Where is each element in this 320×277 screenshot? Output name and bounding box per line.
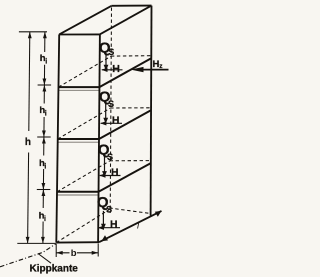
- svg-text:S: S: [106, 204, 112, 214]
- svg-text:i: i: [44, 216, 46, 223]
- svg-text:i: i: [45, 111, 47, 118]
- svg-text:S: S: [108, 47, 114, 57]
- svg-text:i: i: [45, 58, 47, 65]
- svg-text:b: b: [71, 248, 77, 259]
- svg-text:H: H: [112, 63, 120, 75]
- svg-text:H: H: [112, 114, 120, 126]
- svg-text:H: H: [111, 166, 119, 178]
- svg-text:H: H: [110, 219, 118, 231]
- svg-text:i: i: [44, 163, 46, 170]
- svg-text:Kippkante: Kippkante: [30, 263, 79, 274]
- svg-text:S: S: [108, 99, 114, 109]
- svg-text:S: S: [107, 152, 113, 162]
- svg-text:h: h: [25, 137, 31, 148]
